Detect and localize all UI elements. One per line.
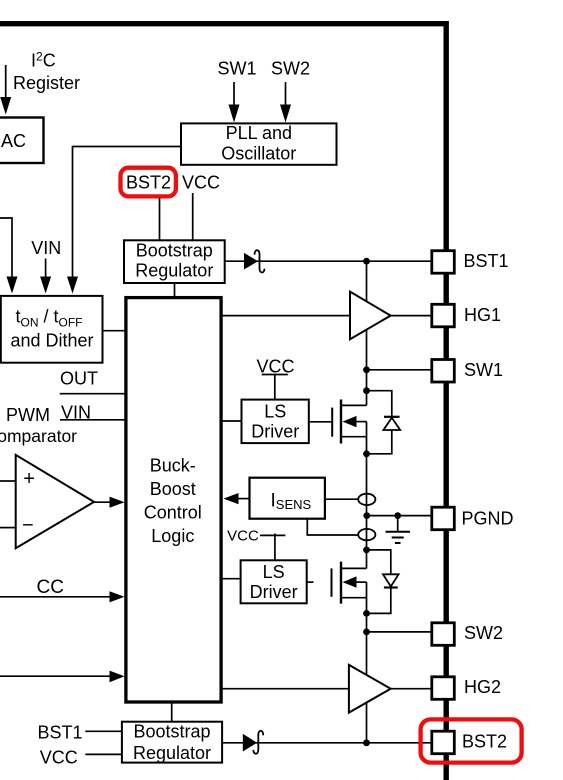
wire SW1 arrow into PLL [229,82,240,123]
wire tON/tOFF output to buck-boost logic [103,330,127,332]
svg-text:OUT: OUT [60,368,98,388]
IC boundary right edge [444,21,449,780]
svg-text:+: + [23,468,35,490]
wire VCC into bootstrap regulator 2 [85,753,122,755]
wire buck-boost to HG2 buffer [223,688,349,690]
wire comparator + input [0,480,16,482]
svg-text:Driver: Driver [250,582,298,602]
wire LS driver 2 gate stub [307,581,314,583]
svg-text:BST2: BST2 [462,732,507,752]
tON/tOFF and Dither box [1,296,103,363]
wire VIN arrow into tON/tOFF [40,259,51,294]
wire bootstrap 2 output to BST2 pin [222,742,432,744]
junction dot Q1 source [363,450,370,457]
svg-text:PGND: PGND [462,509,514,529]
buffer HG2 driver [349,665,391,713]
svg-text:−: − [22,515,34,537]
transistor Q1 high-side NMOS [332,400,366,444]
wire PGND junction to pin [367,515,432,517]
pin PGND [432,507,514,530]
svg-text:Oscillator: Oscillator [221,143,296,163]
svg-text:I2C: I2C [31,50,56,71]
svg-text:BST1: BST1 [464,251,509,271]
wire I2C register arrow into DAC [0,65,11,115]
transistor Q2 low-side NMOS [332,562,367,604]
junction dot BST2 rail [363,739,370,746]
wire I_SENS output to buck-boost (arrow) [224,493,250,504]
wire lower input into buck-boost logic (arrow) [0,671,125,683]
svg-text:VCC: VCC [182,172,220,192]
svg-text:HG2: HG2 [464,677,501,697]
LS Driver 1 box [242,400,309,444]
buffer HG1 driver [350,292,391,340]
bootstrap regulator 1 box [124,240,225,283]
wire VCC to bootstrap regulator 1 [192,193,194,240]
node PWM Comparator label [0,405,77,446]
junction dot Q2 source [363,610,370,617]
wire left input into tON/tOFF (arrow) [0,218,18,294]
svg-text:SW2: SW2 [271,58,310,78]
wire BST1 rail vertical (upper segment) [366,261,368,405]
svg-text:CC: CC [36,577,63,598]
diode D3 body diode of Q2 [367,550,399,614]
wire HG2 buffer output to pin [391,688,432,690]
current sense loop 2 [358,529,375,540]
wire comparator output into buck-boost logic (arrow) [94,497,125,508]
pin HG2 [432,677,501,700]
wire BST2 to bootstrap regulator 1 [159,198,161,240]
junction dot SW1 [363,366,370,373]
pin SW1 [432,360,503,383]
svg-text:DAC: DAC [0,131,26,151]
wire I_SENS to current loop 1 [325,498,358,500]
svg-text:VIN: VIN [31,238,61,258]
svg-text:SW1: SW1 [464,360,503,380]
wire SW2 arrow into PLL [280,82,291,123]
diode D4 curved cathode [253,731,263,754]
svg-text:BST1: BST1 [37,722,82,742]
current sense loop 1 [358,494,375,505]
LS Driver 2 box [241,560,307,603]
svg-text:PWM: PWM [6,405,50,425]
junction dot ground tap [394,512,401,519]
svg-text:VCC: VCC [227,528,259,545]
junction dot Q1 drain [363,387,370,394]
diode D2 body diode of Q1 [367,391,401,454]
svg-text:SW2: SW2 [464,623,503,643]
svg-text:Regulator: Regulator [133,743,211,763]
junction dot BST1 rail [363,258,370,265]
svg-text:VCC: VCC [256,356,294,376]
pin BST1 [432,251,509,274]
DAC box (clipped at left edge) [0,118,44,164]
svg-text:Driver: Driver [251,422,299,442]
wire SW2 junction to pin [367,631,433,633]
wire bootstrap 1 output to BST1 rail [225,260,432,262]
svg-text:Bootstrap: Bootstrap [133,721,210,741]
wire PLL output to tON/tOFF block (arrow) [67,147,181,294]
wire switch node SW1 vertical (middle segment) [366,422,368,569]
diode D4 (bootstrap 2 output) [243,734,257,752]
svg-text:Bootstrap: Bootstrap [136,241,213,261]
wire OUT into buck-boost logic [60,393,126,395]
op-amp U1 PWM comparator [16,455,94,548]
ground [386,516,411,543]
wire buck-boost to LS driver 1 [223,420,242,422]
wire VCC tap to LS driver 2 [260,534,286,561]
wire BST1 into bootstrap regulator 2 [85,730,122,732]
wire LS driver 1 to Q1 gate [309,421,332,423]
wire comparator - input [0,527,16,529]
svg-text:SW1: SW1 [217,58,256,78]
svg-text:HG1: HG1 [464,305,501,325]
pin HG1 [432,304,501,327]
pin BST2 (red highlight) [421,719,522,762]
wire VCC rail tap to LS driver 1 [262,375,288,400]
svg-text:Buck-: Buck- [150,456,196,476]
junction dot Q2 drain [363,547,370,554]
junction dot SW2 [363,629,370,636]
wire SW1 junction to pin [367,369,433,371]
node BST2 input label (red highlight) [121,168,176,197]
svg-text:BST2: BST2 [126,172,171,192]
svg-text:Comparator: Comparator [0,426,77,446]
svg-text:LS: LS [264,402,286,422]
svg-text:Boost: Boost [150,479,196,499]
svg-text:Control: Control [144,503,202,523]
wire CC into buck-boost logic (arrow) [0,591,125,602]
junction dot PGND rail [363,512,370,519]
PLL and Oscillator box [181,123,337,165]
svg-text:VCC: VCC [40,747,78,767]
wire buck-boost to LS driver 2 [223,578,241,580]
diode D1 curved cathode [255,250,265,272]
I_SENS box [250,478,325,519]
svg-text:PLL and: PLL and [226,123,292,143]
svg-text:Regulator: Regulator [135,261,213,281]
wire I_SENS to current loop 2 [307,519,358,535]
wire buck-boost to HG1 buffer [223,315,351,317]
pin SW2 [432,623,503,646]
wire VIN into buck-boost logic [60,419,126,421]
diode D1 (bootstrap 1 output) [244,253,258,270]
svg-text:LS: LS [263,562,285,582]
svg-text:and Dither: and Dither [10,330,93,350]
svg-text:Logic: Logic [151,526,194,546]
wire bootstrap 1 down to buck-boost logic [174,283,176,297]
wire switch node SW2 vertical (lower segment) [366,582,368,743]
buck-boost control logic box [126,298,221,702]
wire HG1 buffer output to pin [391,315,432,317]
svg-text:Register: Register [13,73,80,93]
bootstrap regulator 2 box [122,721,222,763]
IC boundary top edge [0,21,446,26]
wire buck-boost down to bootstrap regulator 2 [171,704,173,722]
